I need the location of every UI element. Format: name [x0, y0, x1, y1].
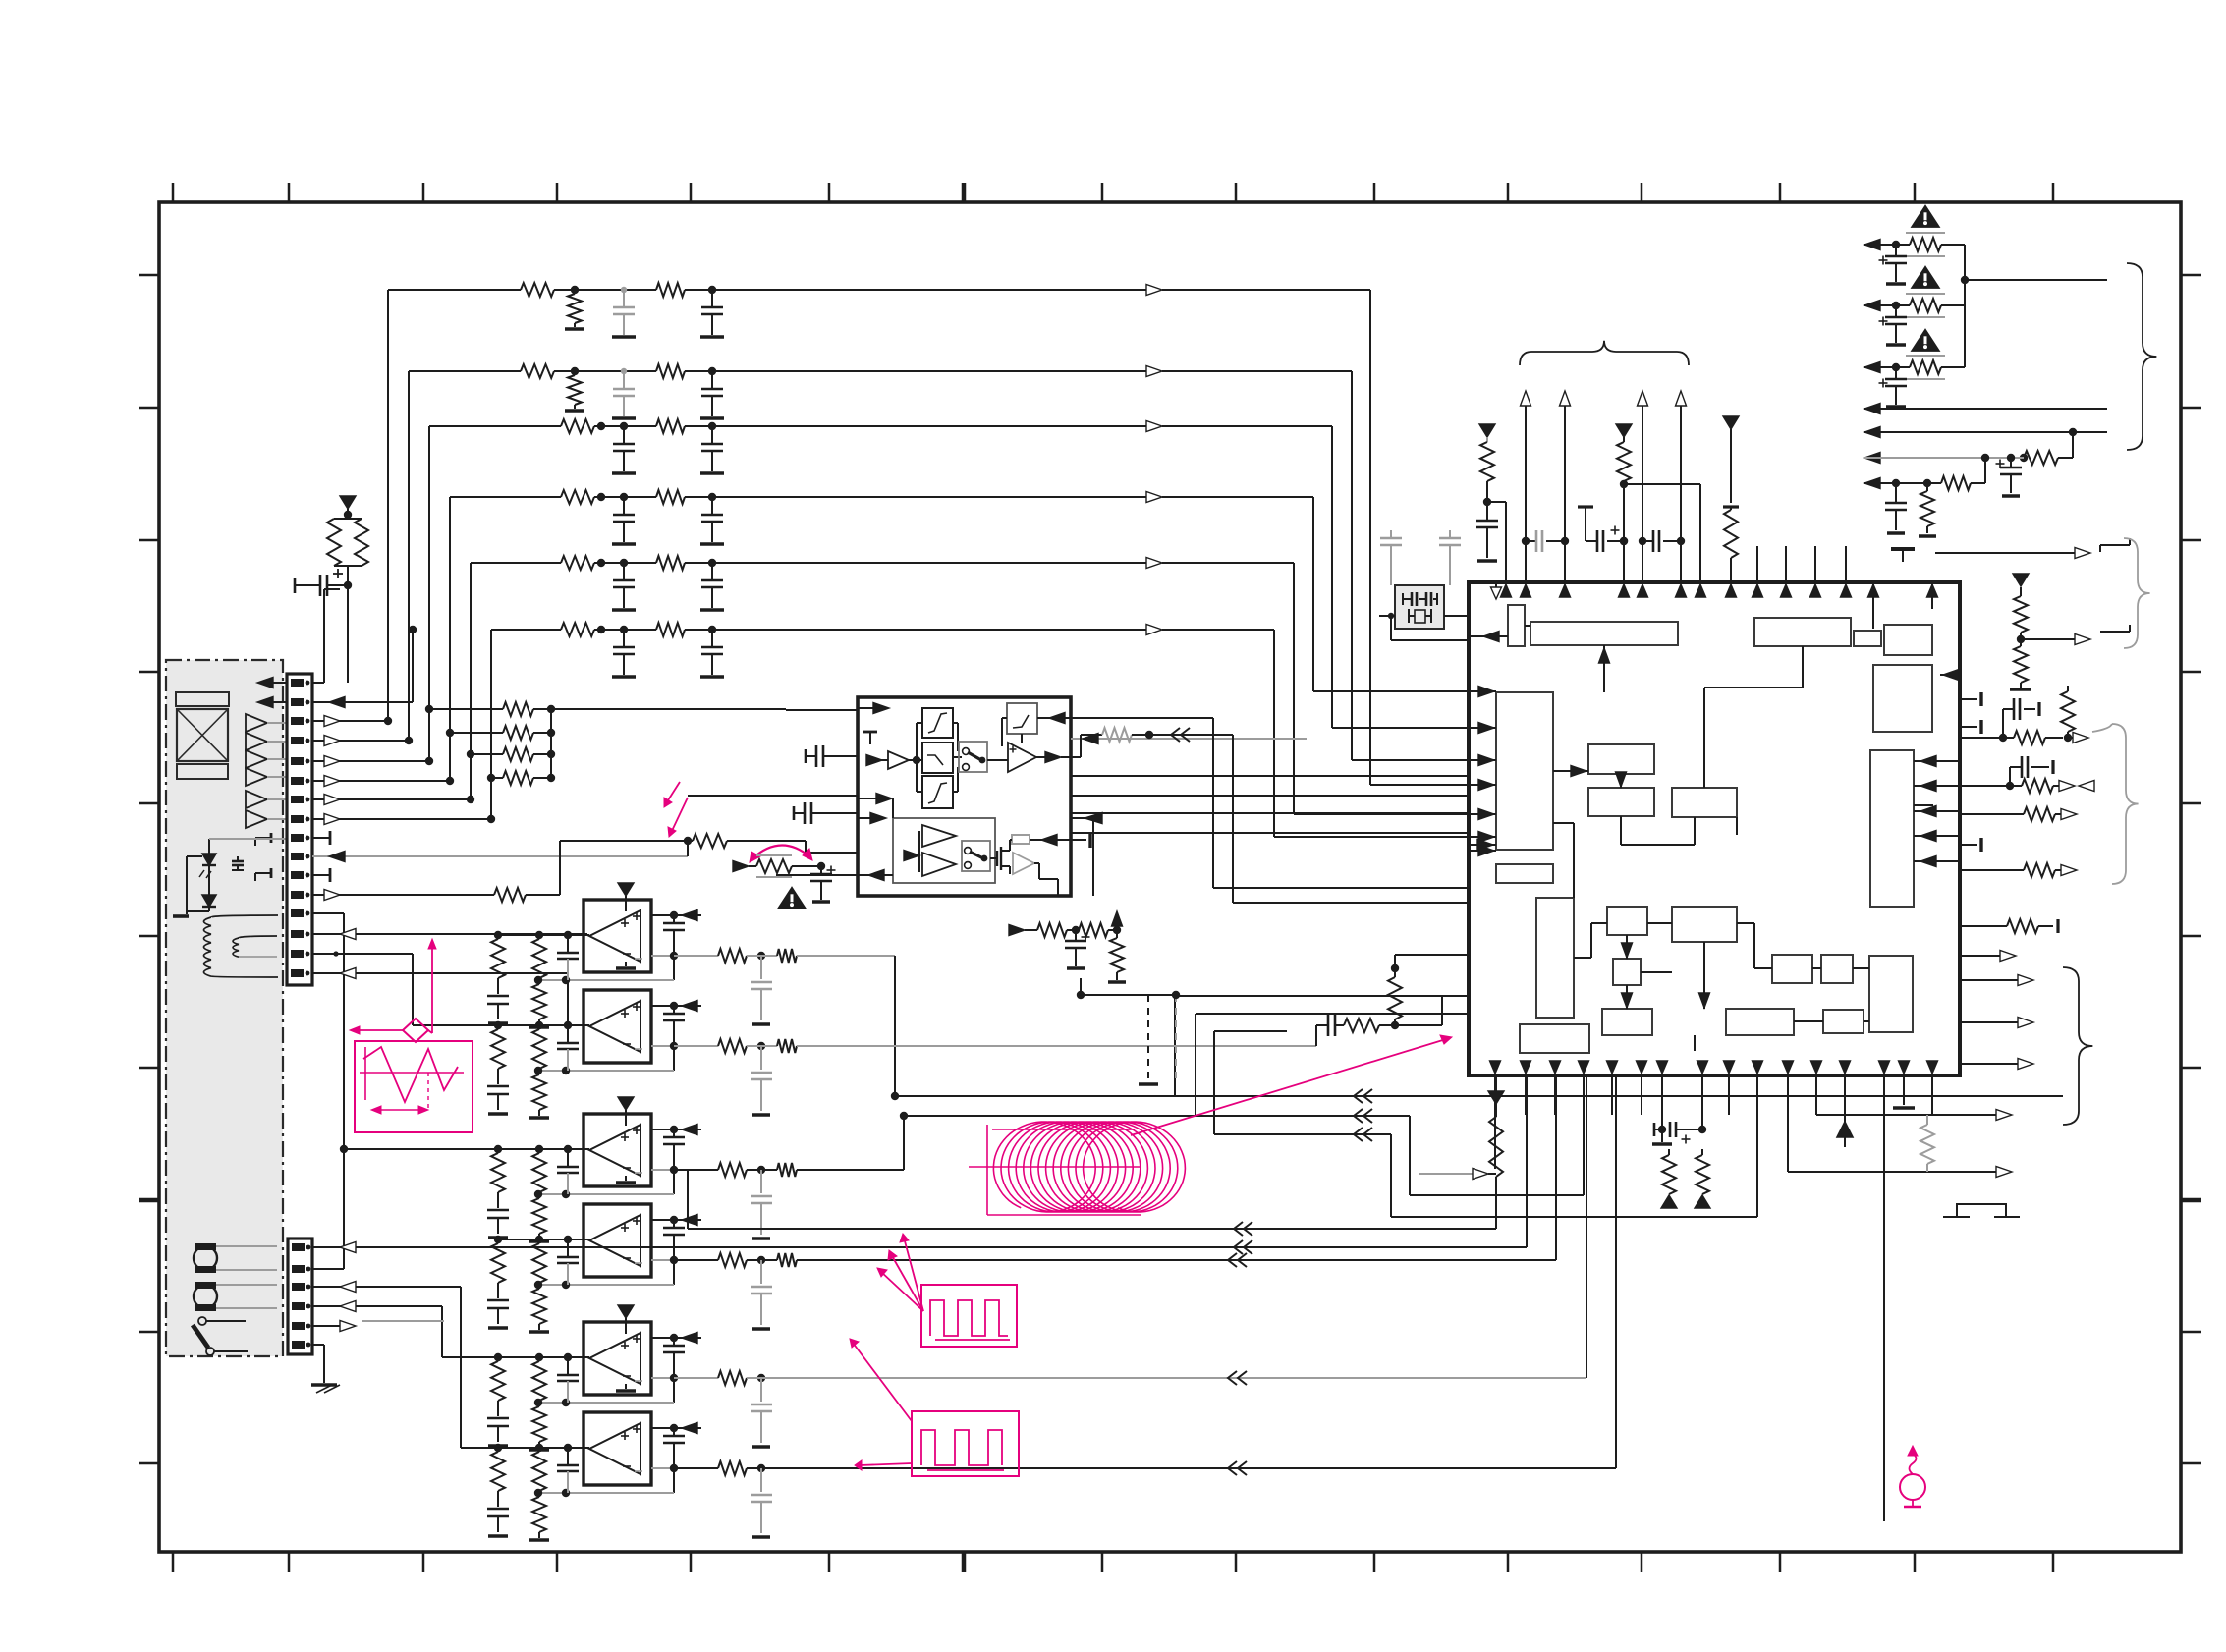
- capacitor input c: [557, 1239, 579, 1285]
- IC sub-block 9: [1588, 744, 1654, 774]
- ground: [612, 471, 636, 475]
- warning triangle 1: [1912, 206, 1938, 227]
- IC bottom pin 15: [1899, 1061, 1910, 1105]
- resistor bus D: [1489, 1104, 1503, 1177]
- resistor filter out: [1071, 728, 1153, 757]
- switch filter: [959, 742, 987, 772]
- cap T right: [1071, 813, 1102, 897]
- wire input line 2: [409, 371, 521, 741]
- res row 751: [1962, 731, 2088, 744]
- brace rails: [1520, 341, 1689, 365]
- IC pin in 1: [1469, 687, 1496, 697]
- IC sub-block 2: [1530, 622, 1678, 645]
- capacitor var: [810, 866, 836, 903]
- res row 886: [1962, 863, 2077, 877]
- wire feedback: [534, 1378, 674, 1406]
- wire feedback: [534, 1170, 674, 1198]
- wire input line 6: [491, 630, 561, 819]
- capacitor out: [663, 1338, 685, 1378]
- resistor series 2b: [656, 364, 716, 378]
- wire feedback: [534, 1468, 674, 1497]
- IC top pin 6: [1927, 582, 1938, 609]
- wire feedback: [534, 956, 674, 984]
- resistor out U1: [674, 949, 895, 1024]
- capacitor out: [663, 1129, 685, 1170]
- wire plus row: [651, 1334, 701, 1342]
- cap stub top: [863, 732, 877, 744]
- cap rail left: [1476, 521, 1498, 561]
- connector CN2: [288, 1239, 312, 1354]
- resistor input a: [491, 1243, 505, 1298]
- arrow out 2: [1864, 301, 1902, 311]
- rail up arrow: [1560, 391, 1571, 582]
- op-amp U6: [584, 1412, 651, 1485]
- rail up big: [1837, 1122, 1853, 1147]
- wire pin16: [312, 968, 568, 1026]
- wire pin3: [312, 716, 392, 727]
- capacitor out: [663, 1006, 685, 1046]
- wire pin4: [312, 736, 413, 746]
- pin stub 11: [255, 868, 271, 881]
- arrow row 973: [1962, 951, 2016, 962]
- resistor series 1b: [656, 283, 716, 297]
- IC sub-block 21: [1823, 1010, 1864, 1033]
- wire minus row: [651, 952, 678, 960]
- wire input line 3: [429, 426, 561, 761]
- pin 14: [291, 930, 309, 938]
- arrow block in low: [858, 813, 886, 824]
- power rail op-amp: [618, 1097, 634, 1126]
- bias cap: [1065, 930, 1090, 968]
- resistor input a: [491, 1452, 505, 1507]
- waveform note PWM1: [921, 1285, 1017, 1347]
- degauss coil primary: [204, 915, 279, 977]
- op-amp U4: [584, 1204, 651, 1277]
- IC bottom pin 1: [1490, 1061, 1501, 1169]
- wire to IC low2: [1395, 954, 1469, 956]
- resistor series 5b: [656, 556, 716, 570]
- IC bottom pin 7: [1657, 1061, 1668, 1129]
- IC pin in 6: [1469, 832, 1496, 843]
- ground: [700, 675, 724, 679]
- resistor input b2: [529, 984, 549, 1027]
- buffer amp 3: [246, 750, 287, 768]
- IC sub-block 3: [1754, 618, 1851, 646]
- ground: [612, 675, 636, 679]
- fusible resistor 3: [1902, 356, 1965, 379]
- ground opto: [173, 911, 189, 916]
- IC sub-block 10: [1588, 788, 1654, 816]
- wire CN2-1: [312, 1242, 1527, 1253]
- out arrow d5: [1788, 1167, 2012, 1178]
- resistor out U4: [674, 1253, 1556, 1329]
- panel arrow in 2: [257, 697, 287, 708]
- resistor rect: [1010, 835, 1071, 852]
- wire bus C: [1214, 1031, 1757, 1217]
- resistor input a: [491, 1029, 505, 1084]
- LED emitter: [199, 843, 216, 878]
- resistor grid 4: [487, 771, 555, 785]
- IC sub-block 16: [1613, 959, 1641, 985]
- pin 2: [291, 698, 309, 706]
- gnd mid right: [1891, 549, 1915, 562]
- buffer amp 1: [246, 714, 287, 732]
- resistor input b1: [532, 1243, 546, 1289]
- rail up a: [1661, 1195, 1677, 1208]
- wire plus row: [651, 1424, 701, 1432]
- cap rail a: [1522, 530, 1569, 552]
- coil leader arrow: [1131, 1035, 1452, 1135]
- wire bus H: [1615, 1075, 1617, 1468]
- capacitor shunt b: [701, 426, 723, 471]
- resistor out U3: [674, 1163, 904, 1239]
- cap below IC: [1654, 1122, 1706, 1144]
- pin 12: [291, 891, 309, 899]
- pin CN2-1: [292, 1243, 310, 1251]
- rail res left: [1479, 424, 1506, 582]
- wire plus row: [651, 1216, 701, 1224]
- wire pin13: [312, 913, 498, 1269]
- wire line 2 to IC: [712, 366, 1469, 761]
- wire route 3: [1071, 812, 1469, 814]
- pin 10: [291, 853, 309, 860]
- resistor input b2: [529, 1406, 549, 1450]
- bias resistor 2: [1079, 923, 1121, 937]
- capacitor input a: [487, 1210, 509, 1238]
- PWM1 arrows: [877, 1234, 923, 1311]
- wire pin1: [312, 589, 340, 683]
- resistor series 3a: [561, 419, 656, 433]
- capacitor shunt a: [613, 287, 635, 335]
- warning triangle 2: [1912, 267, 1938, 288]
- coil scribble: [969, 1122, 1185, 1215]
- resistor input b1: [532, 1029, 546, 1074]
- wire pin7: [312, 795, 474, 805]
- electrolytic cap 3: [1879, 367, 1908, 407]
- IC top rail arrows: [1501, 584, 1737, 597]
- resistor grid 1: [425, 702, 551, 716]
- power rail op-amp: [618, 883, 634, 911]
- pin 16: [291, 969, 309, 977]
- op-amp U3: [584, 1114, 651, 1186]
- ground out9 low: [2010, 688, 2031, 691]
- drive amp upper: [922, 825, 956, 847]
- switch drive: [962, 841, 990, 871]
- coupling res low: [1344, 1019, 1399, 1032]
- resistor series 4b: [656, 490, 716, 504]
- wire input line 1: [388, 290, 521, 721]
- wire pin5: [312, 756, 433, 767]
- lamp A: [194, 1243, 277, 1273]
- capacitor shunt a: [613, 368, 635, 416]
- res vert low: [1388, 955, 1402, 1025]
- power rail op-amp: [618, 1305, 634, 1334]
- bracket bottom: [1943, 1204, 2020, 1217]
- ground: [700, 471, 724, 475]
- pin CN2-5: [292, 1322, 310, 1330]
- IC sub-block 8: [1496, 864, 1553, 883]
- resistor input b1: [532, 939, 546, 984]
- capacitor shunt b: [701, 371, 723, 416]
- brace right low: [2112, 724, 2139, 884]
- IC sub-block 7: [1496, 692, 1553, 850]
- degauss coil secondary: [233, 936, 277, 957]
- ground: [612, 335, 636, 339]
- IC sub-block 22: [1869, 956, 1913, 1032]
- line out 5: [1864, 427, 2107, 438]
- res net right a: [2020, 432, 2073, 465]
- wire gray aux: [1071, 734, 1307, 744]
- wire pin10: [312, 852, 688, 862]
- arrow block out left: [776, 870, 893, 881]
- pin 15: [291, 950, 309, 958]
- variable resistor: [733, 855, 825, 877]
- capacitor shunt b: [701, 290, 723, 335]
- drive buffer out: [1013, 853, 1058, 896]
- pin 6: [291, 777, 309, 785]
- T bar right: [1071, 832, 1090, 848]
- capacitor input a: [487, 1509, 509, 1536]
- resistor shunt 2: [568, 375, 582, 409]
- wire filter out: [1036, 752, 1071, 763]
- ground: [700, 608, 724, 612]
- wire minus row: [651, 1166, 678, 1174]
- wire CN2-4: [312, 1301, 498, 1358]
- line out 6: [1864, 453, 2024, 464]
- IC top pin 3: [1810, 546, 1821, 597]
- brace right top: [2127, 263, 2156, 450]
- IC bottom pin 10: [1753, 1061, 1763, 1115]
- wire: [344, 566, 352, 683]
- IC sub-block 18: [1726, 1009, 1794, 1035]
- ground: [700, 542, 724, 546]
- arrow out 1: [1864, 240, 1902, 250]
- wire route 2: [1071, 795, 1469, 797]
- IC pin in 7: [1469, 846, 1496, 856]
- line out 9: [2017, 634, 2090, 645]
- wire bus G: [1586, 1075, 1587, 1378]
- IC bottom pin 2: [1521, 1061, 1531, 1115]
- buffer amp 6: [246, 810, 287, 828]
- power rail V1: [340, 496, 356, 519]
- resistor input b2: [529, 1074, 549, 1118]
- resistor pin12: [494, 841, 693, 902]
- ground: [612, 542, 636, 546]
- connector panel shield: [166, 660, 283, 1356]
- chevron out: [1149, 728, 1469, 903]
- IC pin in 3: [1469, 755, 1496, 766]
- pin 7: [291, 796, 309, 803]
- wire line 5 to IC: [712, 558, 1469, 815]
- IC pin in 4: [1469, 780, 1496, 791]
- transformer bottom winding: [177, 764, 228, 779]
- IC sub-block 15: [1672, 907, 1737, 942]
- pin 8: [291, 815, 309, 823]
- wire minus row: [651, 1464, 678, 1472]
- drive amp lower: [922, 853, 956, 876]
- stub caps right: [1962, 692, 1981, 852]
- switch: [193, 1317, 248, 1355]
- crystal caps: [1380, 530, 1461, 585]
- capacitor input c: [557, 1357, 579, 1403]
- rail sense arrow: [682, 910, 697, 921]
- IC bottom pin 4: [1579, 1061, 1589, 1115]
- IC bottom pin 3: [1550, 1061, 1561, 1115]
- chassis ground: [311, 1385, 340, 1393]
- wire pin6: [312, 776, 454, 787]
- PWM2 arrows: [850, 1339, 912, 1470]
- IC sub-block 20: [1821, 955, 1853, 983]
- resistor grid 2: [446, 726, 555, 740]
- resistor input b1: [532, 1452, 546, 1497]
- wire feed 723: [547, 705, 858, 713]
- IC sub-block 6: [1873, 665, 1932, 732]
- wire pin2: [312, 626, 417, 708]
- rail sense arrow: [682, 1001, 697, 1012]
- ground: [565, 409, 584, 413]
- feedback curve box: [1007, 703, 1037, 734]
- wire U2 to IC: [1315, 1025, 1317, 1046]
- wire bus E: [1234, 1075, 1527, 1254]
- IC pin in 2: [1469, 723, 1496, 734]
- capacitor out: [663, 915, 685, 956]
- wire to IC low: [1395, 996, 1469, 1025]
- ground: [612, 416, 636, 420]
- wire plus row: [651, 1126, 701, 1133]
- gray lead brace: [2092, 724, 2112, 732]
- rail up arrow: [1521, 391, 1531, 582]
- IC bottom pin 9: [1724, 1061, 1735, 1115]
- resistor out U5: [674, 1371, 1586, 1447]
- res row 829: [1962, 807, 2077, 821]
- connector CN1: [287, 674, 312, 985]
- IC bottom pin 14: [1879, 1061, 1890, 1521]
- adjust arc arrow: [750, 845, 812, 862]
- capacitor electrolytic: [295, 569, 348, 596]
- res out 7: [1919, 483, 1936, 536]
- ground: [700, 416, 724, 420]
- wire feedback: [534, 1260, 674, 1289]
- op-amp U2: [584, 990, 651, 1063]
- lamp B: [194, 1282, 277, 1311]
- fusible join wire: [1961, 245, 2107, 367]
- IC top pin 1: [1753, 546, 1763, 597]
- rail sense arrow: [682, 1125, 697, 1135]
- test point dashed A: [1077, 978, 1158, 1084]
- cap net 751: [1999, 698, 2039, 742]
- IC top pin 5: [1868, 582, 1879, 629]
- limiter curve box 1: [922, 708, 953, 738]
- resistor input a: [491, 1153, 505, 1208]
- line out 4: [1864, 404, 2107, 414]
- resistor input b2: [529, 1497, 549, 1540]
- capacitor out: [663, 1428, 685, 1468]
- IC sub-block 17: [1602, 1009, 1652, 1035]
- capacitor input a: [487, 996, 509, 1023]
- op-amp U1: [584, 900, 651, 972]
- arrow block in mid: [858, 794, 893, 819]
- IC bottom pin 5: [1607, 1061, 1618, 1115]
- fusible resistor 1: [1902, 233, 1965, 256]
- pin11 stub: [312, 868, 330, 882]
- resistor series 6b: [656, 623, 716, 636]
- pin9 stub: [312, 831, 330, 845]
- wire crystal to IC: [1379, 613, 1469, 640]
- wire line 1 to IC: [712, 285, 1469, 786]
- IC sub-block 19: [1772, 955, 1812, 983]
- bias resistor 1: [1037, 923, 1080, 937]
- pin 1: [291, 679, 309, 687]
- wire line 3 to IC: [712, 421, 1469, 729]
- capacitor shunt a: [613, 626, 635, 675]
- wire filter split: [909, 723, 922, 792]
- IC bottom pin 8: [1697, 1061, 1708, 1129]
- cap feed 770: [806, 745, 858, 767]
- IC bottom pin 13: [1840, 1061, 1851, 1139]
- capacitor opto: [232, 856, 244, 870]
- pin stub 9: [255, 833, 271, 846]
- res vert 751: [2061, 686, 2075, 738]
- pin CN2-3: [292, 1283, 310, 1291]
- capacitor input c: [557, 1448, 579, 1493]
- rail res right: [1723, 416, 1739, 582]
- IC bottom pin 16: [1927, 1061, 1938, 1115]
- wire CN2-5: [312, 1321, 444, 1332]
- IC sub-block 11: [1672, 788, 1737, 817]
- lower section box: [893, 818, 995, 883]
- resistor input a: [491, 1361, 505, 1416]
- wire line 6 to IC: [712, 625, 1469, 838]
- wire pin14: [312, 929, 587, 940]
- warning mark center: [778, 888, 805, 909]
- pin 9: [291, 834, 309, 842]
- resistor series 3b: [656, 419, 716, 433]
- IC sub-block 14: [1607, 907, 1647, 935]
- stub arrow low: [1419, 1169, 1496, 1180]
- mosfet: [990, 847, 1010, 874]
- warning triangle 3: [1912, 330, 1938, 351]
- wire bus A: [891, 956, 2063, 1103]
- wire CN2-6: [312, 1345, 324, 1383]
- op-amp U5: [584, 1322, 651, 1395]
- ground: [565, 327, 584, 331]
- buffer amp 5: [246, 791, 287, 808]
- op-amp filter: [987, 743, 1036, 772]
- pin 13: [291, 909, 309, 917]
- capacitor shunt b: [701, 630, 723, 675]
- resistor series 4a: [561, 490, 656, 504]
- rail up arrow: [1638, 391, 1648, 582]
- fusible resistor 2: [1902, 294, 1965, 317]
- res row 943: [1962, 919, 2058, 933]
- buffer filter in: [866, 751, 909, 769]
- open down arrow IC: [1491, 582, 1502, 599]
- capacitor input c: [557, 1149, 579, 1194]
- capacitor input c: [557, 1025, 579, 1071]
- pin 5: [291, 757, 309, 765]
- rail sense arrow: [682, 1333, 697, 1344]
- power rail bus D: [1488, 1091, 1504, 1104]
- LED detector: [202, 865, 216, 907]
- arrow fb in: [1037, 713, 1071, 724]
- coupling cap low: [1316, 1015, 1344, 1036]
- capacitor input c: [557, 935, 579, 980]
- tall rect feeds: [1914, 756, 1960, 867]
- ground op-amp: [616, 962, 636, 968]
- cap feed 828: [794, 802, 858, 824]
- IC sub-block 5: [1884, 625, 1932, 655]
- IC sub-block 4: [1854, 631, 1881, 646]
